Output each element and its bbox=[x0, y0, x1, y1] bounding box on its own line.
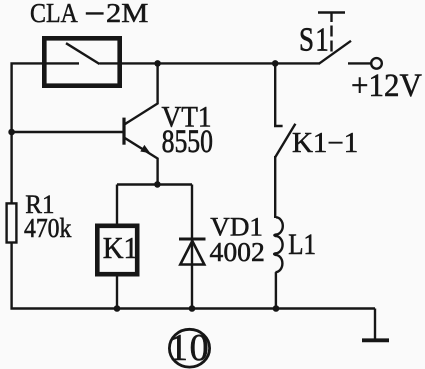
svg-text:K1−1: K1−1 bbox=[292, 127, 358, 159]
svg-text:8550: 8550 bbox=[162, 124, 213, 159]
svg-text:2M: 2M bbox=[106, 0, 148, 29]
wire: K1 bottom lead bbox=[116, 276, 118, 309]
node: L1 bottom junction bbox=[273, 305, 280, 312]
svg-text:+12V: +12V bbox=[351, 67, 422, 103]
svg-text:470k: 470k bbox=[24, 212, 72, 243]
wire: base wire to VT1 bbox=[10, 131, 124, 133]
node: emitter junction on relay rail bbox=[154, 181, 161, 188]
svg-text:4002: 4002 bbox=[210, 237, 265, 267]
relay coil K1 bbox=[97, 226, 137, 274]
wire: top-left segment, left vertical, bottom rail bbox=[12, 63, 375, 308]
wire: top middle from CLA box to S1 bbox=[100, 62, 321, 64]
wire: VD1 branch bbox=[191, 185, 193, 309]
diode VD1 bbox=[179, 239, 206, 265]
node: S1 junction on top wire bbox=[272, 60, 279, 67]
svg-text:S1: S1 bbox=[299, 21, 330, 59]
terminal +12V bbox=[348, 58, 382, 69]
svg-text:CLA: CLA bbox=[30, 0, 78, 28]
node: collector junction on top wire bbox=[154, 60, 161, 67]
inductor L1 bbox=[274, 217, 283, 272]
switch S1 bbox=[318, 13, 351, 64]
wire: right branch middle bbox=[274, 156, 276, 218]
transistor VT1 bbox=[124, 63, 158, 184]
ground bbox=[362, 309, 389, 341]
resistor R1 bbox=[7, 203, 17, 242]
figure number circle bbox=[169, 329, 209, 367]
wire: K1 top lead bbox=[116, 185, 118, 225]
node: K1 bottom junction bbox=[114, 305, 121, 312]
label dash (of CLA-2M) bbox=[86, 12, 104, 14]
svg-text:K1: K1 bbox=[103, 231, 138, 265]
svg-text:L1: L1 bbox=[288, 228, 316, 260]
svg-text:10: 10 bbox=[169, 327, 211, 369]
wire: top rail of relay/diode loop bbox=[117, 183, 192, 185]
vibration switch CLA-2M bbox=[44, 38, 119, 85]
relay contact K1-1 bbox=[275, 63, 295, 157]
wire: right branch bottom bbox=[275, 272, 277, 308]
node: base junction bbox=[8, 129, 15, 136]
node: VD1 bottom junction bbox=[189, 305, 196, 312]
